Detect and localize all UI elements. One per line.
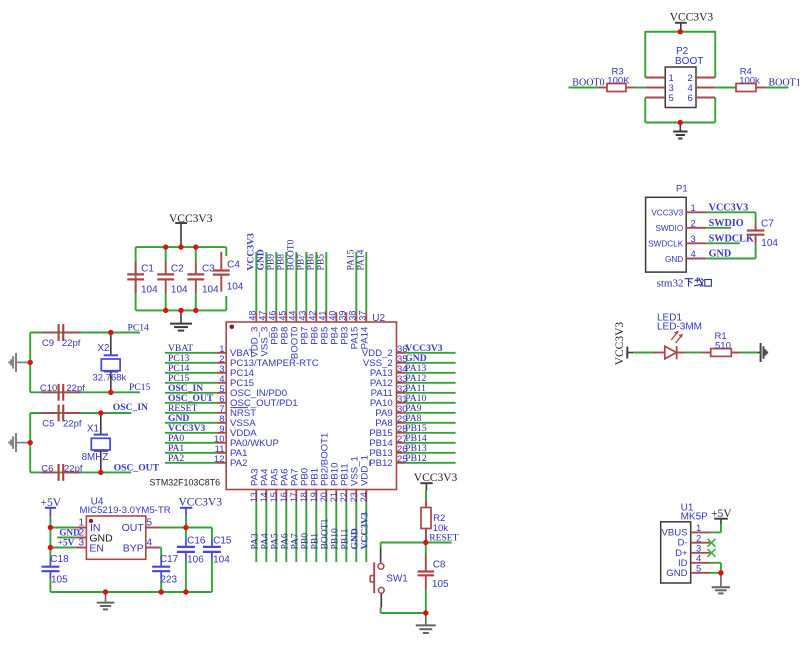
svg-text:22pf: 22pf: [64, 463, 83, 474]
pin 21 U2 (PB10): [329, 463, 341, 503]
junction X1 ground: [28, 440, 33, 445]
wire PC14 (crystal top): [30, 333, 140, 393]
wire U1 pin 4 to ground net: [710, 563, 721, 573]
pin 12 U2 (PA2): [214, 454, 248, 469]
svg-text:104: 104: [171, 285, 188, 296]
connector U1 MK5P: [661, 502, 710, 583]
pin 9 U2 (VDDA): [216, 424, 257, 439]
pin 37 U2 (PA14): [357, 311, 370, 350]
capacitor C9 22pf: [42, 324, 81, 349]
pin 5 U2 (OSC_IN/PD0): [216, 384, 287, 399]
junction C17 ground: [159, 589, 164, 594]
resistor R2 10k: [421, 500, 448, 543]
wire net PA3 (U2 pin 13): [255, 502, 257, 562]
switch SW1: [370, 548, 408, 608]
pin 40 U2 (PB4): [327, 311, 340, 345]
wire net PA8 (U2 pin 29): [405, 422, 456, 424]
wire net OSC_IN (U2 pin 5): [165, 392, 216, 394]
power +5V (USB): [711, 508, 732, 525]
wire VCC3V3 to P2 pins 1 and 2: [645, 31, 715, 78]
junction +5V/IN: [48, 525, 53, 530]
svg-text:510: 510: [715, 340, 731, 351]
mcu U2 STM32F103C8T6 body: [150, 313, 397, 490]
svg-text:21: 21: [329, 492, 339, 502]
junction EN/C18: [48, 545, 53, 550]
wire net VCC3V3 (U2 pin 48): [255, 252, 257, 312]
svg-text:4: 4: [691, 249, 696, 260]
svg-text:C15: C15: [213, 536, 232, 547]
svg-text:4: 4: [147, 538, 153, 549]
svg-text:8MHZ: 8MHZ: [82, 452, 109, 463]
pin 22 U2 (PB11): [339, 463, 351, 502]
svg-text:223: 223: [160, 575, 177, 586]
svg-text:PC14: PC14: [128, 322, 150, 333]
pin 15 U2 (PA5): [269, 469, 281, 503]
svg-text:VDD_1: VDD_1: [360, 455, 371, 486]
wire OUT rail: [160, 527, 212, 529]
pin 4 U2 (PC15): [216, 374, 254, 389]
svg-text:104: 104: [202, 285, 219, 296]
svg-text:105: 105: [432, 579, 449, 590]
pin 27 U2 (PB14): [369, 434, 407, 449]
wire net PA14 (U2 pin 37): [365, 252, 367, 312]
svg-text:24: 24: [359, 492, 369, 502]
wire SWDIO: [706, 227, 731, 229]
junction X2 ground: [28, 360, 33, 365]
svg-text:104: 104: [141, 285, 158, 296]
pin 13 U2 (PA3): [249, 469, 261, 503]
svg-text:22pf: 22pf: [63, 419, 82, 430]
wire net PA9 (U2 pin 30): [405, 412, 456, 414]
wire net PA0 (U2 pin 10): [165, 442, 216, 444]
svg-text:C5: C5: [42, 419, 54, 430]
wire net PA15 (U2 pin 38): [355, 252, 357, 312]
pin 26 U2 (PB13): [369, 444, 407, 459]
capacitor C16 106: [177, 528, 206, 593]
wire VCC3V3 to OUT rail: [185, 517, 187, 527]
capacitor C8 105: [418, 543, 450, 614]
junction bottom C2: [163, 308, 168, 313]
pin 7 U2 (NRST): [216, 404, 256, 419]
junction top C3: [193, 244, 198, 249]
svg-text:C4: C4: [227, 260, 240, 271]
wire net PB10 (U2 pin 21): [335, 502, 337, 562]
wire net VCC3V3 (U2 pin 36): [405, 352, 456, 354]
wire net GND (U2 pin 47): [265, 252, 267, 312]
pin 42 U2 (PB6): [307, 311, 320, 345]
wire net PA13 (U2 pin 34): [405, 372, 456, 374]
wire net PA7 (U2 pin 17): [295, 502, 297, 562]
wire decoupling top rail: [136, 247, 227, 310]
junction reset ground: [423, 610, 428, 615]
pin 44 U2 (BOOT0): [287, 311, 300, 360]
svg-text:MIC5219-3.0YM5-TR: MIC5219-3.0YM5-TR: [80, 505, 171, 516]
pin numbers U4: [78, 517, 152, 548]
junction PC14/X2: [108, 330, 113, 335]
svg-text:19: 19: [309, 492, 319, 502]
capacitor C10 22pf: [40, 383, 85, 401]
pin numbers P2: [669, 73, 693, 104]
ground (BOOT block): [673, 123, 687, 139]
junction P2 ground: [678, 120, 683, 125]
svg-text:5: 5: [669, 93, 674, 104]
wire PC15 (crystal bottom): [30, 391, 140, 393]
svg-text:P1: P1: [676, 184, 688, 195]
svg-text:C8: C8: [433, 559, 446, 570]
svg-text:STM32F103C8T6: STM32F103C8T6: [150, 477, 221, 487]
connector P1 (stm32 download port): [646, 184, 707, 273]
wire +5V down to EN: [49, 528, 51, 548]
capacitor C6 22pf: [41, 463, 83, 481]
svg-text:13: 13: [249, 492, 259, 502]
pin 36 U2 (VDD_2): [362, 344, 408, 359]
svg-text:BOOT: BOOT: [675, 56, 703, 67]
svg-text:stm32: stm32: [657, 277, 684, 289]
pin 24 U2 (VDD_1): [359, 455, 371, 502]
wire net PB7 (U2 pin 43): [305, 252, 307, 312]
wire net GND (U2 pin 8): [165, 422, 216, 424]
wire U4 GND stub: [57, 537, 76, 539]
pin 45 U2 (PB8): [277, 311, 290, 345]
wire P1 pin1 to C7: [706, 212, 756, 222]
wire net VCC3V3 (U2 pin 24): [365, 502, 367, 562]
svg-text:GND: GND: [665, 255, 683, 264]
pin 38 U2 (PA15): [347, 311, 360, 350]
wire P2 pin 4 to R4: [715, 87, 736, 89]
diode LED1 LED-3MM: [657, 312, 702, 359]
svg-text:20: 20: [319, 492, 329, 502]
svg-text:5: 5: [696, 563, 701, 574]
wire net PB14 (U2 pin 27): [405, 442, 456, 444]
junction OSC_IN/X1: [98, 410, 103, 415]
ground (X1, rotated left): [9, 433, 30, 452]
wire R1 to ground: [740, 352, 761, 354]
svg-text:OUT: OUT: [122, 522, 145, 534]
pin 14 U2 (PA4): [259, 468, 271, 502]
svg-text:2: 2: [691, 218, 696, 229]
wire net PC15 (U2 pin 4): [165, 382, 216, 384]
pin 29 U2 (PA8): [375, 414, 407, 429]
svg-text:LED-3MM: LED-3MM: [657, 322, 702, 333]
pin 41 U2 (PB5): [317, 311, 330, 345]
wire RESET to SW1 top: [381, 543, 426, 548]
svg-text:OSC_OUT: OSC_OUT: [114, 462, 160, 473]
resistor R3 100K: [599, 67, 636, 92]
wire VCC3V3 to LED1: [633, 352, 665, 354]
junction OSC_OUT/X1: [98, 470, 103, 475]
resistor R4 100k: [736, 67, 766, 92]
svg-text:104: 104: [227, 281, 244, 292]
pin 31 U2 (PA10): [370, 394, 408, 409]
wire +5V to U1 pin 1: [710, 524, 721, 532]
wire U4 ground rail: [50, 591, 212, 593]
pin 32 U2 (PA11): [371, 384, 408, 399]
wire net PB13 (U2 pin 26): [405, 452, 456, 454]
wire net PB6 (U2 pin 42): [315, 252, 317, 312]
svg-text:C10: C10: [40, 383, 57, 394]
power VCC3V3 (BOOT block): [670, 12, 714, 32]
power VCC3V3 (decoupling): [169, 213, 213, 247]
wire net VCC3V3 (U2 pin 9): [165, 432, 216, 434]
pin 43 U2 (PB7): [297, 311, 310, 345]
wire net PB1 (U2 pin 19): [315, 502, 317, 562]
ground (decoupling): [170, 310, 192, 330]
pin 28 U2 (PB15): [369, 424, 407, 439]
pin 48 U2 (VDD_3): [247, 311, 260, 358]
wire net PA5 (U2 pin 15): [275, 502, 277, 562]
svg-text:X1: X1: [87, 424, 99, 435]
wire OSC_OUT (crystal): [30, 471, 131, 473]
svg-text:22pf: 22pf: [62, 338, 81, 349]
wire net PB8 (U2 pin 45): [285, 252, 287, 312]
pin 19 U2 (PB1): [309, 468, 321, 502]
pin 10 U2 (PA0/WKUP): [214, 434, 279, 449]
wire net BOOT0 (U2 pin 44): [295, 252, 297, 312]
svg-text:105: 105: [51, 575, 68, 586]
svg-text:PA2: PA2: [230, 458, 247, 469]
svg-text:1: 1: [691, 203, 696, 214]
wire RESET right stub: [426, 542, 452, 544]
svg-text:SWDIO: SWDIO: [655, 224, 683, 233]
capacitor C18 105: [41, 548, 69, 593]
svg-text:32.768k: 32.768k: [93, 373, 127, 384]
junction bottom C3: [193, 308, 198, 313]
pin 47 U2 (VSS_3): [257, 311, 270, 357]
wire net PB12 (U2 pin 25): [405, 462, 456, 464]
wire OSC_IN (crystal): [30, 413, 131, 472]
pin 23 U2 (VSS_1): [349, 456, 361, 502]
capacitor C15 104: [203, 528, 232, 593]
pin 11 U2 (PA1): [215, 444, 248, 459]
wire SWDCLK: [706, 242, 740, 244]
svg-text:18: 18: [299, 492, 309, 502]
svg-text:VCC3V3: VCC3V3: [670, 12, 714, 24]
capacitor C17 223: [152, 554, 178, 592]
junction U1 ground: [718, 570, 723, 575]
regulator U4 MIC5219-3.0YM5-TR: [76, 497, 171, 560]
svg-text:SWDCLK: SWDCLK: [648, 240, 684, 249]
junction VCC3V3/P2: [678, 29, 683, 34]
junction top C2: [163, 244, 168, 249]
wire net PA4 (U2 pin 14): [265, 502, 267, 562]
wire BOOT1: [766, 87, 789, 89]
wire net PB9 (U2 pin 46): [275, 252, 277, 312]
svg-text:14: 14: [259, 492, 269, 502]
junction PC15/X2: [108, 390, 113, 395]
svg-text:C7: C7: [761, 219, 774, 230]
svg-text:PC15: PC15: [129, 382, 151, 393]
capacitor C2 104: [157, 247, 188, 310]
svg-text:C6: C6: [41, 463, 53, 474]
ground (USB): [712, 573, 730, 594]
wire net PB15 (U2 pin 28): [405, 432, 456, 434]
junction top power: [178, 244, 183, 249]
svg-text:C18: C18: [50, 554, 69, 565]
pin 46 U2 (PB9): [267, 311, 280, 345]
svg-text:EN: EN: [89, 543, 104, 555]
svg-text:PA2: PA2: [168, 453, 184, 464]
pin 17 U2 (PA7): [289, 469, 301, 503]
svg-text:6: 6: [688, 93, 693, 104]
pin 3 U2 (PC14): [216, 364, 254, 379]
wire net PA6 (U2 pin 16): [285, 502, 287, 562]
junction C16 ground: [183, 589, 188, 594]
svg-text:23: 23: [349, 492, 359, 502]
pin 18 U2 (PB0): [299, 468, 311, 502]
svg-text:PA14: PA14: [355, 249, 366, 270]
svg-text:PB12: PB12: [369, 458, 392, 469]
svg-text:BYP: BYP: [123, 543, 144, 555]
svg-text:PA14: PA14: [360, 326, 371, 349]
wire +5V to U4 IN: [50, 517, 75, 527]
pin 16 U2 (PA6): [279, 469, 291, 503]
svg-text:104: 104: [213, 555, 230, 566]
svg-text:16: 16: [279, 492, 289, 502]
power VCC3V3 (LED, rotated): [614, 322, 633, 366]
junction OUT/C16: [183, 525, 188, 530]
svg-text:3: 3: [78, 538, 84, 549]
pin 25 U2 (PB12): [369, 454, 407, 469]
pin 8 U2 (VSSA): [216, 414, 256, 429]
svg-text:GND: GND: [666, 568, 687, 579]
wire net GND (U2 pin 35): [405, 362, 456, 364]
pin numbers U1: [696, 523, 701, 574]
wire net PC13 (U2 pin 2): [165, 362, 216, 364]
wire net PB11 (U2 pin 22): [345, 502, 347, 562]
capacitor C7 104: [747, 219, 779, 250]
junction bottom ground: [178, 308, 183, 313]
power VCC3V3 (reset): [414, 472, 458, 490]
svg-text:VCC3V3: VCC3V3: [359, 512, 370, 550]
wire SW1 bottom to ground net: [381, 608, 426, 614]
svg-text:MK5P: MK5P: [681, 511, 709, 522]
wire LED1 to R1: [677, 352, 701, 354]
wire BOOT0: [569, 87, 599, 89]
pin 1 U2 (VBAT): [216, 344, 254, 359]
svg-text:22pf: 22pf: [66, 383, 85, 394]
wire net PA2 (U2 pin 12): [165, 462, 216, 464]
pin numbers P1: [691, 203, 696, 260]
svg-text:22: 22: [339, 492, 349, 502]
wire P1 pin4 to C7: [706, 243, 756, 259]
capacitor C4 104: [213, 247, 244, 310]
wire net PA12 (U2 pin 33): [405, 382, 456, 384]
svg-text:C1: C1: [141, 264, 154, 275]
wire P2 pins 5 and 6 to ground: [645, 98, 715, 123]
svg-text:VCC3V3: VCC3V3: [651, 209, 683, 218]
ground (X2, rotated left): [9, 353, 30, 372]
svg-text:C2: C2: [171, 264, 184, 275]
wire VCC3V3 to R2: [425, 490, 427, 500]
svg-text:PB12: PB12: [405, 453, 427, 464]
pin 34 U2 (PA13): [370, 364, 408, 379]
pin 33 U2 (PA12): [370, 374, 408, 389]
overline NRST: [231, 407, 249, 409]
crystal X1 8MHZ: [82, 413, 111, 472]
pin 6 U2 (OSC_OUT/PD1): [216, 394, 297, 409]
svg-text:U2: U2: [372, 313, 385, 324]
svg-text:5: 5: [147, 517, 153, 528]
power +5V (U4, blue): [41, 497, 62, 517]
wire net PB5 (U2 pin 41): [325, 252, 327, 312]
svg-text:39: 39: [337, 311, 347, 321]
svg-text:BOOT1: BOOT1: [769, 77, 801, 88]
svg-text:PB5: PB5: [315, 254, 326, 271]
junction ground rail (symbol): [103, 589, 108, 594]
svg-text:+5V: +5V: [58, 539, 75, 549]
capacitor C3 104: [187, 247, 219, 310]
pin 30 U2 (PA9): [375, 404, 407, 419]
svg-text:VCC3V3: VCC3V3: [614, 322, 626, 366]
connector P2 BOOT: [645, 46, 715, 108]
wire net PA11 (U2 pin 32): [405, 392, 456, 394]
ground (reset): [416, 613, 436, 633]
svg-text:40: 40: [327, 311, 337, 321]
svg-text:C16: C16: [187, 536, 206, 547]
wire EN: [50, 547, 75, 549]
svg-text:104: 104: [761, 238, 778, 249]
wire decoupling bottom rail: [136, 309, 227, 311]
capacitor C1 104: [127, 262, 158, 296]
svg-text:106: 106: [187, 555, 204, 566]
pin 20 U2 (PB2/BOOT1): [319, 433, 331, 503]
wire net GND (U2 pin 23): [355, 502, 357, 562]
svg-text:X2: X2: [98, 343, 110, 354]
svg-text:OSC_IN: OSC_IN: [113, 402, 148, 413]
wire net RESET (U2 pin 7): [165, 412, 216, 414]
wire net PA10 (U2 pin 31): [405, 402, 456, 404]
pin 2 U2 (PC13/TAMPER-RTC): [216, 354, 318, 369]
capacitor C5 22pf: [42, 405, 82, 430]
resistor R1 510: [701, 331, 740, 356]
wire U1 pin 5 to ground: [710, 572, 721, 574]
svg-text:C9: C9: [42, 338, 54, 349]
wire net PA1 (U2 pin 11): [165, 452, 216, 454]
pin 39 U2 (PB3): [337, 311, 350, 345]
wire net PC14 (U2 pin 3): [165, 372, 216, 374]
ground (LED, rotated right): [761, 343, 768, 362]
wire net PB0 (U2 pin 18): [305, 502, 307, 562]
wire net OSC_OUT (U2 pin 6): [165, 402, 216, 404]
wire R3 to P2 pin 3: [636, 87, 646, 89]
junction RESET: [423, 540, 428, 545]
power VCC3V3 (U4, blue): [179, 496, 223, 517]
pin 35 U2 (VSS_2): [363, 354, 408, 369]
wire BYP to C17: [160, 548, 161, 559]
svg-text:15: 15: [269, 492, 279, 502]
crystal X2 32.768k: [93, 333, 127, 393]
wire net BOOT1 (U2 pin 20): [325, 502, 327, 562]
svg-text:C3: C3: [202, 264, 215, 275]
svg-text:17: 17: [289, 492, 299, 502]
svg-text:C17: C17: [160, 554, 179, 565]
svg-text:3: 3: [691, 234, 696, 245]
svg-text:VCC3V3: VCC3V3: [179, 496, 223, 508]
svg-text:100K: 100K: [607, 75, 630, 86]
ground (U4): [97, 592, 115, 609]
no connect U1 pin 2 (D-): [708, 539, 716, 547]
svg-text:SW1: SW1: [386, 573, 408, 584]
no connect U1 pin 3 (D+): [708, 549, 716, 557]
wire net VBAT (U2 pin 1): [165, 352, 216, 354]
svg-text:100k: 100k: [739, 75, 760, 86]
label stm32 download port: [657, 277, 712, 289]
